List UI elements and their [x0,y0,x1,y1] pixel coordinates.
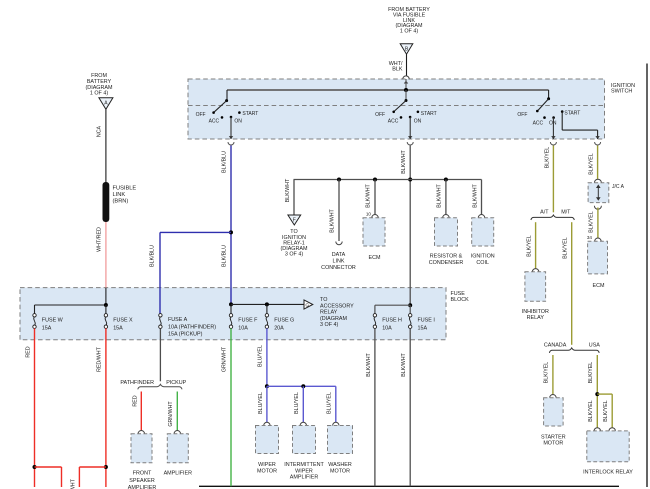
svg-text:INTERMITTENT: INTERMITTENT [284,462,324,468]
svg-text:MOTOR: MOTOR [543,441,563,447]
svg-text:BLK/YEL: BLK/YEL [603,400,609,422]
svg-text:FUSE A: FUSE A [168,317,188,323]
svg-text:3 OF 4): 3 OF 4) [320,322,338,328]
svg-text:1 OF 4): 1 OF 4) [90,91,108,97]
svg-text:WASHER: WASHER [328,462,352,468]
svg-text:GRN/WHT: GRN/WHT [222,346,228,372]
svg-text:FUSIBLE: FUSIBLE [113,185,137,191]
svg-text:TO: TO [320,297,327,303]
svg-text:RELAY: RELAY [320,310,338,316]
svg-text:10A (PATHFINDER): 10A (PATHFINDER) [168,325,216,331]
svg-text:1 OF 4): 1 OF 4) [400,29,418,35]
svg-text:CONNECTOR: CONNECTOR [321,265,356,271]
svg-text:ON: ON [414,119,422,125]
svg-text:RELAY: RELAY [527,315,545,321]
svg-text:BLK/YEL: BLK/YEL [562,237,568,259]
svg-text:START: START [564,111,580,117]
svg-text:BLK/WHT: BLK/WHT [366,183,372,207]
svg-text:ACC: ACC [388,119,399,125]
svg-text:INHIBITOR: INHIBITOR [522,309,549,315]
svg-text:STARTER: STARTER [541,434,566,440]
svg-text:10A: 10A [238,325,248,331]
svg-text:15A (PICKUP): 15A (PICKUP) [168,331,203,337]
svg-text:FUSE F: FUSE F [238,317,258,323]
svg-text:FUSE H: FUSE H [382,317,402,323]
svg-text:MOTOR: MOTOR [330,468,350,474]
svg-text:MOTOR: MOTOR [257,468,277,474]
svg-text:BLK/YEL: BLK/YEL [544,362,550,384]
svg-text:15A: 15A [42,325,52,331]
svg-text:G: G [305,303,309,309]
svg-text:BLK/WHT: BLK/WHT [285,178,291,202]
svg-text:ACCESSORY: ACCESSORY [320,303,354,309]
svg-text:(DIAGRAM: (DIAGRAM [320,316,347,322]
svg-text:ON: ON [234,119,242,125]
svg-text:LINK: LINK [333,259,345,265]
svg-text:BLK/YEL: BLK/YEL [588,400,594,422]
svg-text:OFF: OFF [517,112,527,118]
svg-text:BLK/YEL: BLK/YEL [589,211,595,233]
svg-text:BLK/YEL: BLK/YEL [588,362,594,384]
svg-text:ACC: ACC [533,121,544,127]
svg-text:ACC: ACC [209,119,220,125]
svg-text:START: START [242,111,258,117]
svg-text:RED/WHT: RED/WHT [97,346,103,371]
svg-text:FUSE I: FUSE I [418,317,435,323]
svg-text:15A: 15A [113,325,123,331]
svg-text:AMPLIFIER: AMPLIFIER [290,475,319,481]
svg-text:BLK/BLU: BLK/BLU [222,245,228,267]
svg-text:BLK/BLU: BLK/BLU [150,245,156,267]
svg-text:BLK/WHT: BLK/WHT [437,183,443,207]
svg-text:FUSE G: FUSE G [274,317,294,323]
svg-text:AMPLIFIER: AMPLIFIER [164,471,193,477]
svg-text:BLU/YEL: BLU/YEL [258,392,264,414]
svg-text:COIL: COIL [476,260,489,266]
svg-text:PICKUP: PICKUP [166,380,186,386]
svg-text:15A: 15A [418,325,428,331]
svg-text:BLK/YEL: BLK/YEL [589,153,595,175]
svg-text:ECM: ECM [593,283,605,289]
svg-text:OFF: OFF [196,112,206,118]
svg-text:LINK: LINK [113,192,126,198]
svg-text:WIPER: WIPER [258,462,276,468]
svg-text:FRONT: FRONT [133,471,152,477]
svg-text:J/C A: J/C A [612,184,625,190]
svg-text:START: START [421,111,437,117]
svg-text:GRN/WHT: GRN/WHT [168,401,174,427]
svg-text:34: 34 [587,235,593,240]
svg-text:SWITCH: SWITCH [611,88,632,94]
svg-text:CONDENSER: CONDENSER [429,260,464,266]
svg-text:NCA: NCA [97,125,103,137]
svg-text:USA: USA [589,342,600,348]
svg-text:BLK/YEL: BLK/YEL [526,235,532,257]
svg-text:CANADA: CANADA [544,342,567,348]
svg-text:FUSE W: FUSE W [42,317,64,323]
svg-text:RED: RED [25,346,31,357]
svg-text:F: F [293,218,296,224]
svg-text:DATA: DATA [332,252,346,258]
svg-text:WHT/RED: WHT/RED [97,227,103,252]
svg-text:FUSE X: FUSE X [113,317,133,323]
svg-text:INTERLOCK RELAY: INTERLOCK RELAY [583,470,633,476]
svg-text:BLK/WHT: BLK/WHT [472,183,478,207]
svg-text:10A: 10A [382,325,392,331]
svg-text:BLK/BLU: BLK/BLU [222,151,228,173]
svg-text:ECM: ECM [369,255,381,261]
svg-text:10: 10 [366,212,372,217]
svg-text:BLK: BLK [392,66,403,72]
svg-text:BLU/YEL: BLU/YEL [294,392,300,414]
svg-text:RED: RED [132,395,138,406]
svg-text:RESISTOR &: RESISTOR & [430,254,463,260]
svg-text:BLK/WHT: BLK/WHT [330,208,336,232]
svg-text:(BRN): (BRN) [113,198,129,204]
svg-text:A/T: A/T [540,209,549,215]
svg-text:BLU/YEL: BLU/YEL [327,392,333,414]
svg-text:IGNITION: IGNITION [471,254,495,260]
svg-text:M/T: M/T [561,209,571,215]
svg-text:3 OF 4): 3 OF 4) [285,252,303,258]
svg-text:AMPLIFIER: AMPLIFIER [128,485,157,489]
svg-text:SPEAKER: SPEAKER [129,478,155,484]
svg-text:WIPER: WIPER [295,468,313,474]
svg-text:BLK/WHT: BLK/WHT [401,352,407,376]
svg-text:BLK/YEL: BLK/YEL [545,147,551,169]
svg-text:OFF: OFF [375,112,385,118]
svg-text:BLK/WHT: BLK/WHT [366,352,372,376]
svg-text:20A: 20A [274,325,284,331]
svg-text:BLK/WHT: BLK/WHT [401,149,407,173]
svg-text:RED/WHT: RED/WHT [71,478,77,489]
svg-text:BLU/YEL: BLU/YEL [258,345,264,367]
svg-text:BLOCK: BLOCK [451,297,470,303]
svg-text:PATHFINDER: PATHFINDER [120,380,154,386]
